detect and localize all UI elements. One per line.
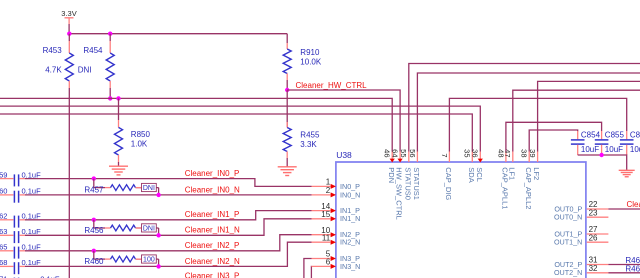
svg-text:59: 59 <box>0 170 7 179</box>
capacitor C856 <box>626 131 628 139</box>
wire STATUS0 to right edge <box>409 64 640 152</box>
pin 39 LF2 <box>537 152 539 163</box>
wire Cleaner_IN1_P to pin 14 <box>25 211 312 220</box>
svg-text:Cleaner_OUT0_P: Cleaner_OUT0_P <box>627 200 640 209</box>
wire R453 net to bottom edge <box>68 88 70 278</box>
IC U38 outline <box>336 162 586 278</box>
pin 35 SDA <box>471 152 473 163</box>
wire Cleaner_OUT0_P to right edge <box>608 208 640 210</box>
pin 48 CAP_APLL1 <box>505 152 507 163</box>
pin 47 LF1 <box>512 152 514 163</box>
svg-text:62: 62 <box>0 212 7 221</box>
pin 10 IN2_P <box>312 234 331 236</box>
capacitor 0.1uF (row pin 62) <box>0 219 13 221</box>
svg-text:R460: R460 <box>84 257 104 266</box>
svg-text:Cleaner_IN1_P: Cleaner_IN1_P <box>185 210 240 219</box>
svg-text:47: 47 <box>503 149 512 157</box>
resistor R910 <box>286 34 288 43</box>
svg-text:DNI: DNI <box>143 185 155 192</box>
svg-text:23: 23 <box>589 208 598 217</box>
wire Cleaner_IN2_N to pin 11 <box>25 242 312 266</box>
svg-text:R463: R463 <box>625 264 640 273</box>
svg-text:Cleaner_IN3_P: Cleaner_IN3_P <box>185 271 240 278</box>
svg-text:R910: R910 <box>300 48 320 57</box>
svg-text:OUT2_N: OUT2_N <box>554 268 582 277</box>
pin 7 CAP_DIG <box>448 152 450 163</box>
pin 46 PDN <box>391 152 393 163</box>
svg-text:IN0_N: IN0_N <box>340 190 360 199</box>
svg-text:46: 46 <box>383 149 392 157</box>
pin 36 SCL <box>479 152 481 163</box>
wire LF2 to right edge <box>538 81 640 151</box>
svg-text:64: 64 <box>391 149 400 157</box>
svg-text:2: 2 <box>326 186 331 195</box>
pin 55 STATUS0 <box>408 152 410 163</box>
capacitor 0.1uF (row pin 68) <box>0 265 13 267</box>
wire CAP_DIG to C856 <box>449 98 626 151</box>
bus wire PDN <box>0 98 392 151</box>
svg-text:SCL: SCL <box>475 167 484 182</box>
junction at R453 top <box>67 32 71 36</box>
svg-text:DNI: DNI <box>143 226 155 233</box>
svg-text:32: 32 <box>589 264 598 273</box>
svg-text:Cleaner_IN2_N: Cleaner_IN2_N <box>185 257 240 266</box>
wire Cleaner_HW_CTRL to pin 64 <box>287 90 400 152</box>
svg-text:CAP_APLL2: CAP_APLL2 <box>524 167 533 209</box>
svg-text:C855: C855 <box>605 131 625 140</box>
svg-text:68: 68 <box>0 258 7 267</box>
svg-text:10.0K: 10.0K <box>300 58 322 67</box>
svg-text:CAP_DIG: CAP_DIG <box>444 167 453 200</box>
svg-text:C854: C854 <box>581 131 601 140</box>
svg-text:C856: C856 <box>630 131 640 140</box>
wire 3.3V rail <box>69 33 287 35</box>
svg-text:3.3K: 3.3K <box>300 140 317 149</box>
wire R850 to ground <box>118 162 120 166</box>
svg-text:60: 60 <box>0 187 7 196</box>
capacitor 0.1uF (row pin 60) <box>0 194 13 196</box>
svg-text:U38: U38 <box>336 150 352 160</box>
svg-text:R453: R453 <box>43 46 63 55</box>
svg-text:IN1_N: IN1_N <box>340 214 360 223</box>
resistor R457 (DNI) <box>92 176 96 180</box>
svg-text:OUT0_N: OUT0_N <box>554 213 582 222</box>
wire CAP_APLL2 to C854 <box>529 130 578 152</box>
pin 38 CAP_APLL2 <box>528 152 530 163</box>
wire OUT2_N to R463 <box>608 272 640 274</box>
pin 56 STATUS1 <box>416 152 418 163</box>
capacitor 0.1uF (row pin 59) <box>0 178 13 180</box>
svg-text:55: 55 <box>399 149 408 157</box>
resistor R455 <box>286 90 288 128</box>
wire R454 to PDN bus <box>109 88 111 98</box>
svg-text:HW_SW_CTRL: HW_SW_CTRL <box>395 167 404 220</box>
ground (decoupling caps) <box>619 169 635 171</box>
svg-text:7: 7 <box>440 153 449 157</box>
pin 22 OUT0_P <box>587 208 609 210</box>
svg-text:6: 6 <box>326 258 331 267</box>
wire LF1 to right edge <box>513 90 640 151</box>
wire CAP_APLL1 to C855 <box>506 122 602 151</box>
svg-text:STATUS1: STATUS1 <box>412 167 421 200</box>
pin 2 IN0_N <box>312 194 331 196</box>
bus wire SCL to pin 36 <box>0 106 480 151</box>
junction C855 bottom <box>599 153 603 157</box>
resistor R453 <box>68 34 70 41</box>
wire OUT2_P to R462 <box>608 264 640 266</box>
svg-text:4.7K: 4.7K <box>45 66 62 75</box>
svg-text:11: 11 <box>322 233 331 242</box>
junction R454 on PDN bus <box>108 96 112 100</box>
svg-text:DNI: DNI <box>78 66 92 75</box>
svg-text:PDN: PDN <box>387 167 396 183</box>
svg-text:10uF: 10uF <box>605 145 623 154</box>
svg-text:100: 100 <box>143 257 155 264</box>
resistor R456 (DNI) <box>92 218 96 222</box>
resistor R454 <box>109 34 111 41</box>
svg-text:26: 26 <box>589 233 598 242</box>
svg-text:STATUS0: STATUS0 <box>403 167 412 200</box>
wire R455 to ground <box>286 158 288 167</box>
pin 5 IN3_P <box>312 258 331 260</box>
bus wire SDA to pin 35 <box>0 114 472 152</box>
capacitor 0.1uF (row pin 65) <box>0 250 13 252</box>
svg-text:LF2: LF2 <box>532 167 541 180</box>
capacitor C855 <box>601 131 603 139</box>
pin 31 OUT2_P <box>587 264 609 266</box>
node Cleaner_HW_CTRL junction <box>285 88 289 92</box>
wire R910 to HW_CTRL node <box>286 80 288 90</box>
svg-text:63: 63 <box>0 227 7 236</box>
svg-text:R457: R457 <box>84 186 104 195</box>
svg-text:R850: R850 <box>131 130 151 139</box>
pin 6 IN3_N <box>312 265 331 267</box>
svg-text:Cleaner_IN2_P: Cleaner_IN2_P <box>185 241 240 250</box>
svg-text:R455: R455 <box>300 131 320 140</box>
wire Cleaner_IN1_N to pin 15 <box>25 219 312 236</box>
svg-text:10uF: 10uF <box>581 145 599 154</box>
ground (R850) <box>109 165 128 167</box>
svg-text:Cleaner_IN0_P: Cleaner_IN0_P <box>185 169 240 178</box>
pin 32 OUT2_N <box>587 272 609 274</box>
svg-text:IN3_N: IN3_N <box>340 262 360 271</box>
svg-text:65: 65 <box>0 243 7 252</box>
svg-text:1.0K: 1.0K <box>131 140 148 149</box>
svg-text:OUT1_N: OUT1_N <box>554 238 582 247</box>
pin 11 IN2_N <box>312 241 331 243</box>
svg-text:38: 38 <box>520 149 529 157</box>
capacitor (partial bottom row) <box>13 277 15 278</box>
svg-text:35: 35 <box>463 149 472 157</box>
svg-text:IN2_N: IN2_N <box>340 238 360 247</box>
junction at R454 top <box>108 32 112 36</box>
wire Cleaner_IN0_P to pin 1 <box>25 179 312 187</box>
resistor R460 (100) <box>92 249 96 253</box>
ground (R455) <box>278 166 297 168</box>
wire Cleaner_IN2_P to pin 10 <box>25 235 312 251</box>
wire Cleaner_IN3_P to pin 5 <box>304 259 312 278</box>
svg-text:SDA: SDA <box>467 167 476 182</box>
svg-text:R454: R454 <box>83 46 103 55</box>
pin 14 IN1_P <box>312 210 331 212</box>
svg-text:36: 36 <box>471 149 480 157</box>
pin 1 IN0_P <box>312 185 331 187</box>
pin 64 HW_SW_CTRL <box>399 152 401 163</box>
wire Cleaner_IN0_N to pin 2 <box>25 194 312 196</box>
pin 23 OUT0_N <box>587 216 609 218</box>
pin 26 OUT1_N <box>587 241 609 243</box>
capacitor 0.1uF (row pin 63) <box>0 234 13 236</box>
wire Cleaner_IN3_N to pin 6 <box>310 266 312 278</box>
svg-text:10uF: 10uF <box>630 145 640 154</box>
svg-text:3.3V: 3.3V <box>61 9 76 18</box>
pin 27 OUT1_P <box>587 233 609 235</box>
wire caps common to ground <box>578 155 627 170</box>
svg-text:Cleaner_HW_CTRL: Cleaner_HW_CTRL <box>296 81 368 90</box>
junction R850 tap <box>116 96 120 100</box>
svg-text:15: 15 <box>321 210 330 219</box>
pin 15 IN1_N <box>312 218 331 220</box>
capacitor C854 <box>577 131 579 139</box>
wire STATUS1 to right edge <box>417 73 640 152</box>
svg-text:Cleaner_IN0_N: Cleaner_IN0_N <box>185 185 240 194</box>
svg-text:R456: R456 <box>84 226 104 235</box>
svg-text:LF1: LF1 <box>507 167 516 180</box>
svg-text:Cleaner_IN1_N: Cleaner_IN1_N <box>185 226 240 235</box>
resistor R850 <box>118 98 120 120</box>
